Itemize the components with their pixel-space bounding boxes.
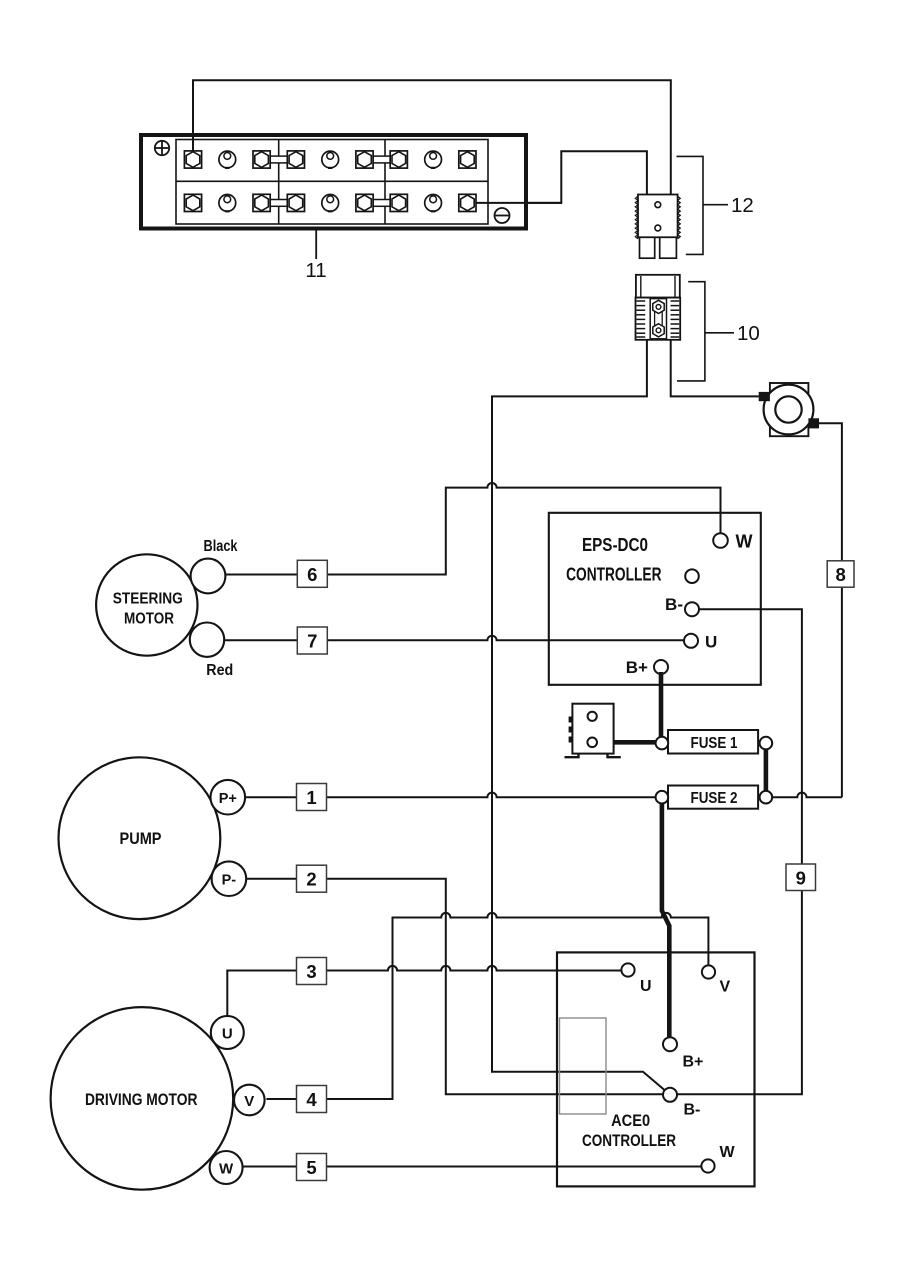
EPS terminal W: [713, 533, 728, 548]
wire stub battery positive terminal: [192, 137, 194, 153]
svg-text:DRIVING MOTOR: DRIVING MOTOR: [85, 1091, 198, 1109]
label box 6 on wire 6: [297, 560, 327, 587]
steering motor red terminal: [190, 623, 224, 657]
battery pack inner frame: [176, 140, 488, 225]
thick wire EPS B+ to fuse 1: [659, 672, 664, 743]
label box 2 on wire 2: [297, 865, 327, 892]
connector 12 body: [635, 195, 680, 239]
EPS indicator circle: [685, 569, 699, 583]
pump terminal P+: [211, 780, 246, 815]
battery link bar row 2 right: [373, 200, 390, 207]
steering motor black terminal: [191, 559, 226, 594]
wire 4 motor V to ACE0 V: [266, 913, 708, 1099]
wire fuse 2 right to wire 8 (hop over B- wire): [772, 793, 842, 798]
svg-text:ACE0: ACE0: [611, 1111, 650, 1130]
key switch outer circle: [764, 385, 814, 435]
svg-text:Black: Black: [204, 538, 238, 555]
battery link bar row 2 left: [270, 200, 287, 207]
svg-text:11: 11: [305, 259, 326, 282]
battery label leader line: [315, 229, 317, 259]
contactor coil terminal bottom: [587, 738, 597, 748]
EPS-DC0 controller box: [549, 513, 761, 685]
contactor side contacts: [569, 717, 573, 743]
ACE0 terminal U: [621, 963, 634, 976]
wire 2 pump P- to ACE0 B-: [246, 879, 663, 1095]
wire EPS B-minus to ACE0 B-minus via 9: [677, 609, 802, 1094]
steering motor: [96, 554, 197, 655]
contactor coil terminal top: [588, 712, 597, 721]
connector 10 bolt top: [653, 300, 664, 313]
ACE0 terminal W: [701, 1159, 714, 1172]
thick wire contactor to fuse 1: [597, 740, 662, 745]
connector 10 cap: [636, 275, 680, 298]
svg-text:10: 10: [737, 322, 760, 345]
driving motor terminal W: [210, 1151, 243, 1184]
fuse 2 box: [668, 786, 758, 809]
battery row divider: [176, 180, 488, 182]
battery terminal bolt row1 col3: [253, 151, 270, 168]
battery terminal cap row2 col2: [219, 195, 236, 212]
wire battery positive to connector 12: [193, 80, 671, 194]
battery terminal bolt row1 col4: [287, 151, 304, 168]
battery terminal bolt row2 col1: [184, 194, 201, 211]
fuse 1 terminal right: [760, 737, 773, 750]
wire 7 red steering wire to EPS U: [224, 636, 684, 641]
connector 10 ribs right: [671, 301, 680, 337]
pump motor: [58, 757, 220, 919]
svg-text:B+: B+: [683, 1054, 704, 1071]
ACE0 controller box: [557, 952, 755, 1186]
pump terminal P-: [212, 861, 247, 896]
label box 4 on wire 4: [297, 1086, 327, 1113]
svg-text:PUMP: PUMP: [120, 830, 162, 848]
label box 1 on wire 1: [297, 784, 327, 811]
connector 12 pin hole top: [655, 202, 661, 208]
label box 8: [827, 561, 854, 587]
svg-text:W: W: [736, 532, 753, 552]
connector 12 pin left: [640, 237, 655, 258]
battery plus symbol: [155, 141, 169, 155]
driving motor terminal V: [234, 1085, 265, 1116]
battery cell divider 1: [278, 140, 280, 225]
wire 3 motor U to ACE0 U: [227, 966, 621, 1017]
thick wire fuse 1 to fuse 2 right side: [764, 743, 769, 797]
battery pack 11 outer case: [141, 135, 526, 229]
driving motor terminal U: [211, 1016, 244, 1049]
svg-text:FUSE 1: FUSE 1: [691, 735, 738, 752]
battery terminal bolt row2 col7: [390, 194, 407, 211]
connector 10 center column: [650, 299, 666, 339]
svg-text:EPS-DC0: EPS-DC0: [582, 534, 648, 555]
key switch terminal right: [808, 418, 819, 428]
wire battery negative to connector 12: [467, 151, 647, 203]
ACE0 terminal B-: [663, 1088, 677, 1102]
label box 3 on wire 3: [297, 958, 327, 985]
svg-text:B-: B-: [665, 595, 683, 614]
ACE0 terminal V: [702, 965, 715, 978]
battery minus symbol: [495, 208, 510, 223]
wire 1 pump P+ to fuse 2: [245, 793, 655, 798]
battery link bar row 1 left: [270, 156, 287, 163]
EPS terminal B-plus: [654, 660, 668, 674]
svg-text:P+: P+: [219, 791, 237, 807]
bracket for label 10: [677, 282, 705, 381]
svg-text:B-: B-: [684, 1102, 701, 1119]
ACE0 inner module: [560, 1018, 607, 1114]
svg-text:P-: P-: [222, 873, 237, 889]
EPS terminal U: [684, 634, 698, 648]
battery terminal cap row2 col8: [425, 195, 442, 212]
svg-text:7: 7: [307, 631, 317, 652]
key switch body square: [770, 383, 809, 436]
svg-text:W: W: [219, 1161, 234, 1178]
wire stub battery negative terminal: [476, 202, 562, 204]
connector 10 bolt bottom: [653, 324, 664, 337]
svg-text:12: 12: [731, 194, 754, 217]
svg-text:W: W: [720, 1144, 736, 1161]
contactor feet: [565, 754, 621, 758]
svg-text:6: 6: [307, 564, 317, 585]
battery link bar row 1 right: [373, 156, 390, 163]
driving motor: [51, 1007, 234, 1190]
fuse 1 terminal left: [656, 737, 669, 750]
battery terminal bolt row1 col6: [356, 151, 373, 168]
label box 5 on wire 5: [297, 1154, 327, 1181]
connector 10 ribs left: [637, 301, 646, 337]
svg-text:FUSE 2: FUSE 2: [691, 790, 738, 807]
battery terminal bolt row1 col7: [390, 151, 407, 168]
wire 5 motor W to ACE0 W: [243, 1166, 702, 1168]
battery terminal cap row1 col2: [219, 151, 236, 168]
label 12 leader: [703, 204, 728, 206]
EPS terminal B-minus: [685, 602, 699, 616]
battery terminal bolt row1 col9: [459, 151, 476, 168]
svg-text:8: 8: [835, 564, 845, 585]
battery terminal bolt row2 col9: [459, 194, 476, 211]
connector 10 body: [636, 298, 681, 340]
svg-text:U: U: [640, 978, 652, 995]
svg-text:9: 9: [796, 868, 806, 889]
wire 8 key switch to fuse 2: [819, 423, 842, 797]
svg-text:U: U: [705, 633, 717, 652]
wire connector 10 right leg to key switch: [671, 340, 759, 397]
ACE0 terminal B+: [663, 1037, 677, 1051]
battery terminal cap row2 col5: [322, 195, 339, 212]
battery terminal bolt row2 col3: [253, 194, 270, 211]
svg-text:V: V: [720, 979, 731, 996]
svg-text:CONTROLLER: CONTROLLER: [582, 1131, 676, 1150]
contactor box: [572, 704, 613, 754]
fuse 2 terminal right: [760, 791, 773, 804]
battery cell divider 2: [384, 140, 386, 225]
wire connector 10 left leg to ACE0 B-minus (battery negative bus): [492, 340, 665, 1090]
connector 10 bolt link: [655, 311, 663, 326]
battery terminal cap row1 col8: [425, 151, 442, 168]
connector 12 pin hole bottom: [655, 225, 661, 231]
svg-text:B+: B+: [626, 658, 648, 677]
svg-text:3: 3: [306, 961, 316, 982]
svg-text:U: U: [222, 1026, 233, 1043]
svg-text:5: 5: [306, 1157, 316, 1178]
key switch terminal left: [759, 392, 770, 401]
svg-text:Red: Red: [206, 662, 233, 679]
wire 6 black steering wire to EPS W: [225, 483, 720, 574]
svg-text:4: 4: [306, 1089, 317, 1110]
battery terminal bolt row2 col4: [287, 194, 304, 211]
svg-text:MOTOR: MOTOR: [124, 611, 174, 628]
fuse 1 box: [668, 730, 758, 754]
fuse 2 terminal left: [656, 791, 669, 804]
svg-text:CONTROLLER: CONTROLLER: [566, 564, 661, 585]
connector 12 pin right: [660, 237, 677, 258]
battery terminal bolt row2 col6: [356, 194, 373, 211]
svg-text:V: V: [244, 1093, 254, 1110]
svg-text:2: 2: [306, 869, 316, 890]
label box 9: [786, 864, 816, 891]
label 10 leader: [705, 332, 734, 334]
battery terminal cap row1 col5: [322, 151, 339, 168]
battery terminal bolt row1 col1: [184, 151, 201, 168]
thick wire fuse 2 to ACE0 B+: [662, 797, 669, 1037]
svg-text:STEERING: STEERING: [113, 591, 183, 608]
svg-text:1: 1: [306, 787, 316, 808]
label box 7 on wire 7: [297, 627, 327, 654]
bracket for label 12: [677, 156, 704, 254]
key switch inner circle: [775, 396, 801, 422]
